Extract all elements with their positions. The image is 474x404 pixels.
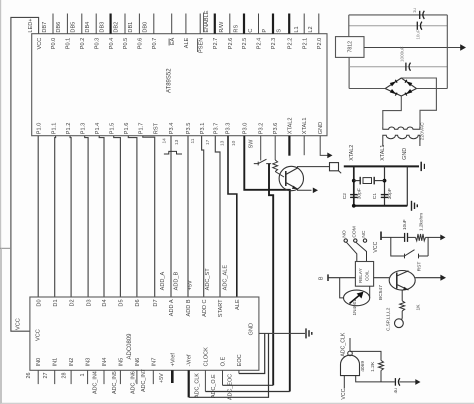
svg-text:P: P	[262, 29, 268, 33]
svg-text:P0.7: P0.7	[152, 38, 158, 50]
wire bridge left vertex	[349, 88, 385, 90]
U2 pin IN1 stub	[54, 370, 56, 384]
svg-text:ADD_A: ADD_A	[160, 271, 166, 290]
svg-text:ADC_IN5: ADC_IN5	[112, 371, 118, 394]
U1 pin EA stub	[171, 14, 173, 34]
svg-text:IN5: IN5	[118, 358, 124, 367]
U1 pin P2.6 stub	[229, 14, 231, 34]
svg-text:26: 26	[26, 373, 32, 379]
svg-text:P3.5: P3.5	[186, 123, 192, 135]
wire R4 to ground arrow	[426, 236, 441, 238]
wire Q1 collector to buzzer	[298, 167, 330, 168]
svg-text:IN7: IN7	[151, 358, 157, 367]
wire regulator down to bridge	[348, 57, 350, 88]
wire U4 input right to cap	[356, 376, 395, 382]
U1 pin P0.7 stub	[153, 14, 155, 34]
svg-text:220VAC: 220VAC	[419, 122, 425, 140]
wire U1 P3.4 to ADC ADD A	[170, 136, 172, 297]
relay K1 coil box	[355, 262, 373, 287]
svg-text:D7: D7	[153, 299, 159, 306]
wire U4 output up	[349, 338, 351, 351]
svg-text:27: 27	[43, 373, 49, 379]
wire OE bus to switch vertical	[223, 384, 274, 386]
svg-text:B: B	[319, 276, 325, 280]
svg-text:VCC: VCC	[37, 38, 43, 50]
wire R3 to terminal	[401, 311, 403, 318]
diode D5 1N4001	[344, 290, 370, 306]
svg-text:ADC_IN7: ADC_IN7	[141, 369, 147, 392]
wire U1 XTAL2 stub	[288, 136, 290, 156]
ground symbol at crystal rail	[411, 201, 413, 211]
svg-text:ADC_IN4: ADC_IN4	[93, 371, 99, 394]
U1 pin P0.3 stub	[95, 14, 97, 34]
transistor Q2 BC547	[389, 271, 415, 291]
wire stub at left border on VCC net	[0, 247, 11, 249]
svg-text:P2.4: P2.4	[257, 38, 263, 50]
svg-text:P0.2: P0.2	[80, 38, 86, 50]
wire C6 to R4	[408, 236, 416, 238]
crystal Y1	[354, 180, 360, 182]
svg-text:10uF: 10uF	[416, 29, 421, 39]
svg-text:13: 13	[174, 139, 180, 145]
svg-text:EA: EA	[170, 37, 176, 45]
ground arrow at U1 GND	[327, 153, 332, 159]
U2 pin IN4 stub	[103, 370, 105, 384]
U1 pin P0.1 stub	[66, 14, 68, 34]
svg-text:RST: RST	[154, 122, 160, 134]
capacitor C3 1000uF	[405, 63, 407, 71]
wire U1 P1.3 jog to ADC	[85, 136, 88, 297]
svg-text:DB6: DB6	[56, 22, 62, 33]
wire XTAL2 branch down	[353, 166, 355, 205]
svg-text:+5V: +5V	[187, 280, 193, 290]
bridge rectifier D1-D4	[385, 78, 416, 96]
wire reset button loop left	[391, 237, 405, 256]
wire U1 P1.4 jog to ADC	[99, 136, 104, 297]
svg-text:D5: D5	[119, 299, 125, 306]
svg-text:P0.3: P0.3	[94, 38, 100, 50]
svg-text:1N4001: 1N4001	[352, 299, 357, 316]
op IC U1 AT89S52 body	[32, 34, 327, 136]
op IC U2 ADC0809 body	[30, 297, 259, 370]
svg-text:XTAL2: XTAL2	[349, 145, 355, 161]
svg-text:ADC_CLK: ADC_CLK	[341, 332, 347, 356]
relay contact NC	[363, 239, 366, 242]
U2 pin O.E stub	[222, 370, 224, 385]
wire U1 P3.2 to switch	[260, 136, 262, 161]
wire right rail down to bridge	[446, 15, 448, 89]
wire feedback to R5	[350, 351, 381, 360]
junction crystal gnd left	[352, 204, 356, 208]
wire filter rail 1000uF	[349, 66, 447, 68]
output arrow +12V	[460, 44, 466, 50]
wire VCC to C6	[381, 236, 404, 238]
U1 pin P2.2 stub	[288, 14, 290, 34]
svg-text:CLOCK: CLOCK	[203, 347, 209, 367]
svg-text:P2.6: P2.6	[228, 38, 234, 50]
U1 pin P0.2 stub	[81, 14, 83, 34]
svg-text:P3.0: P3.0	[242, 123, 248, 135]
pushbutton S1 on P3.4 net	[164, 151, 182, 154]
svg-text:P1.3: P1.3	[80, 123, 86, 135]
svg-text:P3.1: P3.1	[200, 123, 206, 135]
svg-text:ADC_ST: ADC_ST	[205, 268, 211, 291]
svg-text:LED+: LED+	[28, 18, 34, 32]
svg-text:P1.7: P1.7	[139, 123, 145, 135]
wire B to relay coil	[328, 277, 355, 279]
svg-text:XTAL2: XTAL2	[287, 118, 293, 135]
svg-text:4069: 4069	[360, 361, 366, 372]
U1 pin P2.5 stub	[243, 14, 245, 34]
scan border bottom	[0, 402, 474, 404]
svg-text:P2.3: P2.3	[271, 38, 277, 50]
svg-text:30pF: 30pF	[356, 188, 362, 199]
wire down to diode D5	[340, 278, 344, 298]
svg-text:1000uF: 1000uF	[399, 46, 404, 62]
svg-text:4u: 4u	[393, 388, 398, 394]
svg-text:10uF: 10uF	[402, 219, 407, 230]
svg-text:ADD C: ADD C	[202, 299, 208, 316]
svg-text:ADD B: ADD B	[186, 299, 192, 316]
svg-text:ADC0809: ADC0809	[127, 333, 133, 360]
U1 pin P0.0 stub	[52, 14, 54, 34]
svg-text:P3.2: P3.2	[259, 123, 265, 135]
svg-text:DB5: DB5	[71, 22, 77, 33]
wire XTAL1 branch down	[384, 166, 386, 205]
svg-text:IN1: IN1	[53, 358, 59, 367]
svg-text:VCC: VCC	[35, 329, 41, 341]
wire GND branch down	[406, 166, 408, 205]
wire U1 P3.1 jog down to ADC ADD C	[202, 136, 204, 297]
wire faint left border segment	[0, 248, 2, 403]
resistor R3 1K	[400, 301, 405, 311]
ground arrow reset	[440, 235, 445, 241]
switch SW (on P3.2)	[254, 159, 271, 163]
svg-text:O.E: O.E	[221, 356, 227, 366]
svg-text:1K: 1K	[416, 304, 422, 311]
wire U2 GND to ground	[259, 332, 305, 334]
capacitor C5	[419, 11, 421, 19]
svg-text:13: 13	[219, 140, 225, 146]
svg-text:P3.6: P3.6	[273, 123, 279, 135]
wire R5 down to bottom wire	[380, 371, 382, 382]
svg-text:-Vref: -Vref	[187, 354, 193, 366]
svg-text:ENABLE: ENABLE	[204, 10, 210, 32]
svg-text:D6: D6	[135, 299, 141, 306]
svg-text:RST: RST	[416, 262, 422, 272]
svg-text:ADC_O.E: ADC_O.E	[211, 374, 217, 398]
svg-text:IN4: IN4	[102, 358, 108, 367]
regulator U3 7812	[336, 37, 365, 58]
wire bridge bottom vertex to transformer left	[383, 96, 402, 126]
ground symbol at U2 GND	[305, 328, 307, 338]
relay contact NO	[344, 239, 347, 242]
svg-text:AT89S52: AT89S52	[167, 68, 173, 93]
svg-text:C: C	[248, 29, 254, 33]
wire CLOCK bus to P3.0 vertical	[205, 391, 289, 393]
terminal tag C,SP,L1,L2	[395, 319, 404, 328]
buzzer LS1	[330, 163, 339, 171]
wire resistor to Q1 base	[275, 172, 284, 178]
svg-text:1.2kohm: 1.2kohm	[419, 213, 424, 231]
wire U1 P3.6 to resistor	[274, 136, 276, 160]
wire U1 P1.0 to ADC	[37, 136, 39, 297]
svg-text:DB4: DB4	[85, 22, 91, 33]
wire COM contact into relay	[356, 242, 367, 261]
svg-text:BC547: BC547	[378, 285, 384, 300]
U1 pin P2.4 stub	[258, 14, 260, 34]
wire U1 P3.7 jog down to ADC START	[215, 136, 220, 297]
svg-text:C2: C2	[342, 193, 348, 200]
svg-text:GND: GND	[318, 122, 324, 134]
svg-text:P3.3: P3.3	[226, 123, 232, 135]
U2 pin IN5 stub	[119, 370, 121, 384]
wire U1 P3.0 down right and down to ADC CLOCK bus	[244, 136, 289, 392]
svg-text:START: START	[218, 299, 224, 317]
wire rail to regulator input	[348, 15, 350, 37]
svg-text:DB2: DB2	[114, 22, 120, 33]
U1 pin P2.0 stub	[318, 14, 320, 34]
svg-text:1.2K: 1.2K	[370, 361, 376, 372]
arrow output right of Q2	[440, 275, 446, 281]
U2 pin +Vref stub	[171, 370, 174, 383]
svg-text:P1.6: P1.6	[124, 123, 130, 135]
svg-text:D1: D1	[53, 299, 59, 306]
svg-text:C,SP,L1,L2: C,SP,L1,L2	[386, 307, 391, 331]
svg-text:ALE: ALE	[184, 37, 190, 48]
svg-text:+Vref: +Vref	[170, 353, 176, 367]
svg-text:P0.5: P0.5	[123, 38, 129, 50]
transformer T1 secondary winding	[383, 126, 420, 129]
capacitor C4	[416, 22, 418, 30]
junction crystal right	[383, 179, 387, 183]
node B input terminal	[327, 274, 329, 281]
wire U1 P1.1 jog to ADC	[54, 136, 57, 297]
svg-text:VCC: VCC	[341, 388, 347, 399]
scan border left	[0, 0, 2, 404]
svg-text:NC: NC	[361, 230, 367, 238]
svg-text:COIL: COIL	[365, 270, 370, 281]
svg-text:NO: NO	[342, 230, 348, 238]
wire U1 GND to arrow	[320, 136, 327, 156]
svg-text:VCC: VCC	[16, 318, 22, 330]
U1 pin P2.3 stub	[272, 14, 274, 34]
svg-text:28: 28	[62, 373, 68, 379]
svg-text:IN3: IN3	[86, 358, 92, 367]
svg-text:P2.0: P2.0	[317, 38, 323, 50]
junction crystal left	[352, 179, 356, 183]
wire U1 P1.7 jog right then down to ADC D7	[143, 136, 155, 297]
capacitor C7	[394, 378, 396, 386]
svg-text:ADC_IN6: ADC_IN6	[130, 371, 136, 394]
resistor R2 base resistor	[273, 160, 278, 172]
transformer T1 primary winding	[383, 135, 420, 146]
node XTAL2 net bus	[344, 165, 419, 167]
svg-text:ADC_ALE: ADC_ALE	[223, 265, 229, 291]
svg-text:P2.5: P2.5	[242, 38, 248, 50]
svg-text:GND: GND	[248, 323, 254, 335]
svg-text:L2: L2	[308, 26, 314, 32]
wire VCC/LED+ net from U1 VCC left and down to ADC VCC	[11, 17, 39, 331]
wire relay coil to Q2 base	[374, 277, 390, 279]
svg-text:+5V: +5V	[159, 373, 165, 383]
relay contact COM	[354, 239, 357, 242]
pushbutton RST	[405, 250, 429, 256]
svg-text:P0.0: P0.0	[51, 38, 57, 50]
wire U1 P1.6 jog to ADC	[128, 136, 137, 297]
wire diode to coil box	[369, 286, 371, 298]
svg-text:P0.6: P0.6	[138, 38, 144, 50]
svg-text:P1.2: P1.2	[66, 123, 72, 135]
transistor Q1 buzzer driver	[279, 166, 303, 190]
VCC tick for reset circuit	[380, 232, 382, 241]
capacitor C2	[350, 194, 357, 196]
svg-text:P1.4: P1.4	[95, 123, 101, 135]
svg-text:RS: RS	[234, 25, 240, 33]
svg-text:RELAY: RELAY	[358, 268, 363, 283]
svg-text:D3: D3	[86, 299, 92, 306]
svg-text:DB3: DB3	[100, 22, 106, 33]
svg-text:P2.1: P2.1	[302, 38, 308, 50]
U1 pin PSEN stub	[199, 14, 201, 34]
svg-text:P0.1: P0.1	[66, 38, 72, 50]
svg-text:30pF: 30pF	[387, 188, 393, 199]
svg-text:ADD A: ADD A	[169, 299, 175, 316]
wire U1 P3.3 down jog right to ADC ALE	[228, 136, 237, 297]
svg-text:IN6: IN6	[135, 358, 141, 367]
resistor R4 1.2kohm	[416, 234, 426, 241]
svg-text:ADC_EOC: ADC_EOC	[228, 374, 234, 400]
svg-text:11: 11	[190, 138, 196, 143]
U1 pin P0.5 stub	[124, 14, 126, 34]
capacitor C6 10uF	[404, 233, 406, 242]
svg-text:S: S	[277, 29, 283, 33]
svg-text:P3.7: P3.7	[213, 123, 219, 135]
svg-text:IN0: IN0	[36, 358, 42, 367]
svg-text:XTAL1: XTAL1	[302, 118, 308, 135]
resistor R5 1.2K	[379, 360, 384, 370]
svg-text:7812: 7812	[348, 41, 354, 53]
svg-text:10: 10	[231, 140, 237, 146]
svg-text:L1: L1	[294, 26, 300, 32]
wire filter rail 2	[349, 25, 448, 27]
inverter U4 4069 gate	[341, 355, 360, 375]
U2 pin IN6 stub	[136, 370, 138, 384]
svg-text:VCC: VCC	[373, 241, 379, 252]
wire crystal ground rail	[354, 205, 408, 207]
svg-text:14: 14	[162, 138, 168, 144]
U1 pin P0.6 stub	[138, 14, 140, 34]
wire cap to arrow	[400, 381, 416, 383]
svg-text:DB0: DB0	[142, 22, 148, 33]
wire regulator output	[364, 47, 461, 49]
svg-text:COM: COM	[351, 226, 357, 237]
wire Q2 to right arrow	[415, 277, 441, 279]
svg-text:P1.0: P1.0	[37, 123, 43, 135]
svg-text:EOC: EOC	[237, 354, 243, 366]
U1 pin P2.1 stub	[303, 14, 305, 34]
svg-text:IN2: IN2	[69, 358, 75, 367]
ground arrow at oscillator	[415, 379, 420, 385]
capacitor C1	[381, 194, 388, 196]
wire U1 P1.2 jog to ADC	[70, 136, 71, 297]
svg-text:1u: 1u	[412, 8, 417, 13]
wire reset button loop right	[427, 237, 429, 256]
svg-text:D0: D0	[36, 299, 42, 306]
U1 pin P0.4 stub	[109, 14, 111, 34]
wire U4 input left down	[343, 376, 345, 389]
wire Q1 emitter to ground	[298, 189, 312, 190]
U2 pin CLOCK stub	[204, 370, 206, 391]
wire bridge top vertex to transformer right	[401, 78, 436, 126]
U2 pin IN0 stub	[37, 370, 39, 384]
wire switch output down to ADC OE bus	[269, 164, 273, 386]
wire Q2 emitter down	[401, 290, 403, 301]
U2 pin IN3 stub	[87, 370, 89, 384]
svg-text:XTAL1: XTAL1	[380, 145, 386, 161]
svg-text:P0.4: P0.4	[109, 38, 115, 50]
svg-text:ALE: ALE	[235, 299, 241, 310]
U1 pin ALE stub	[185, 14, 187, 34]
svg-text:P2.7: P2.7	[213, 38, 219, 50]
svg-text:DB1: DB1	[128, 22, 134, 33]
wire U1 P3.5 to ADC ADD B	[187, 136, 189, 297]
wire EOC up to GND net	[239, 333, 265, 373]
svg-text:D4: D4	[102, 299, 108, 306]
svg-text:GND: GND	[402, 148, 408, 160]
svg-text:P2.2: P2.2	[287, 38, 293, 50]
wire -Vref to GND net	[189, 333, 269, 397]
svg-text:1: 1	[80, 374, 86, 377]
svg-text:SW: SW	[248, 139, 254, 149]
svg-text:C1: C1	[372, 193, 378, 200]
svg-text:ADC_CLK: ADC_CLK	[195, 373, 201, 398]
svg-text:P1.5: P1.5	[109, 123, 115, 135]
ground arrow at Q1 emitter	[313, 187, 318, 193]
wire U1 XTAL1 stub	[303, 136, 305, 156]
U2 pin -Vref stub	[188, 370, 190, 397]
wire U1 P1.5 jog to ADC	[114, 136, 121, 297]
svg-text:ADD_B: ADD_B	[174, 271, 180, 290]
power flag at crystal bus right end	[420, 162, 422, 171]
svg-text:P3.4: P3.4	[169, 123, 175, 135]
svg-text:R/W: R/W	[219, 21, 225, 33]
svg-text:D2: D2	[69, 299, 75, 306]
U2 pin IN2 stub	[70, 370, 72, 384]
svg-text:P1.1: P1.1	[51, 123, 57, 135]
svg-text:17: 17	[205, 139, 211, 145]
svg-text:DB7: DB7	[42, 22, 48, 33]
wire NO contact into relay	[347, 242, 357, 261]
wire +12V top rail	[349, 14, 448, 16]
wire bridge right vertex	[417, 88, 448, 90]
svg-text:PSEN: PSEN	[198, 38, 204, 53]
U2 pin EOC stub	[238, 370, 240, 373]
U1 pin P2.7 stub	[214, 14, 216, 34]
U2 pin IN7 stub	[152, 370, 154, 384]
